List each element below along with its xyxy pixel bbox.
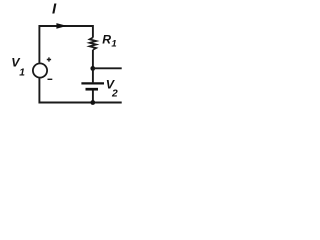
node: bottom junction dot (90, 100, 95, 105)
node: top junction dot (90, 66, 95, 71)
resistor R1 (zigzag) (90, 38, 97, 50)
wire: stub right from top junction (93, 67, 122, 69)
svg-text:1: 1 (19, 68, 25, 79)
wire: junction to battery top plate (92, 68, 94, 82)
svg-text:1: 1 (111, 39, 116, 50)
wire: battery to bottom junction (92, 91, 94, 103)
arrow (current direction on top wire) (56, 23, 67, 29)
svg-text:R: R (102, 33, 111, 47)
source V1 (circle) (33, 63, 47, 77)
wire: resistor to top junction (92, 50, 94, 67)
wire: bottom wire (39, 78, 121, 102)
svg-text:I: I (52, 0, 57, 17)
battery V2 bottom plate (short thick) (86, 88, 99, 91)
battery V2 top plate (long) (81, 82, 104, 84)
minus sign of V1 (48, 78, 53, 80)
wire: top wire with left and right corners (39, 26, 93, 63)
plus sign of V1 (47, 57, 51, 61)
svg-text:2: 2 (111, 89, 118, 100)
